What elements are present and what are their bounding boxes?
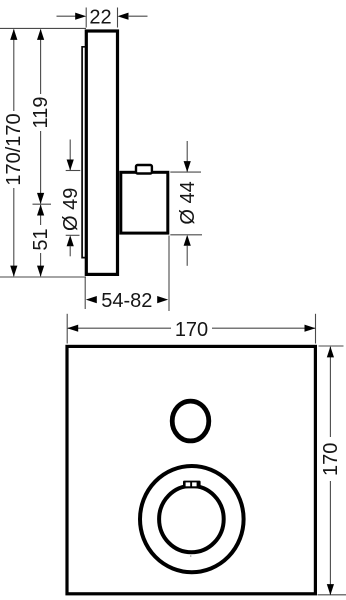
svg-text:119: 119 (30, 97, 52, 129)
temperature index dot (190, 555, 192, 557)
svg-text:Ø 49: Ø 49 (60, 188, 82, 231)
escutcheon front view square (67, 346, 315, 593)
dimension 54-82 installation depth (85, 236, 169, 313)
dimension 119 line (30, 29, 52, 204)
handle grip tab with two windows (183, 481, 201, 489)
dimension 170 height of plate (318, 346, 346, 595)
extension line bottom of plate (0, 276, 86, 278)
valve cartridge body side view (121, 172, 168, 233)
select button circle (172, 401, 209, 441)
dimension 22 plate depth (57, 7, 148, 29)
svg-text:51: 51 (30, 228, 52, 250)
stop screw bump on valve top (136, 165, 152, 174)
wall plate side view body (86, 31, 117, 274)
tick between 119 and 51 dimensions (33, 203, 52, 205)
svg-text:170: 170 (320, 443, 342, 476)
svg-text:22: 22 (89, 7, 111, 29)
thermostat handle outer circle (140, 466, 244, 572)
dimension diameter 49 line (60, 140, 82, 257)
extension line top of plate (0, 27, 86, 29)
svg-text:170/170: 170/170 (3, 113, 25, 185)
dimension diameter 44 line (170, 141, 202, 266)
dimension 51 line (30, 205, 52, 277)
svg-text:Ø 44: Ø 44 (177, 181, 199, 224)
thermostat handle inner circle (159, 486, 224, 552)
wall plate front flange edge (82, 47, 85, 258)
dimension 170 width of plate (67, 314, 315, 344)
svg-text:170: 170 (175, 319, 208, 341)
svg-text:54-82: 54-82 (101, 290, 152, 312)
dimension 170/170 overall height line (3, 29, 25, 277)
